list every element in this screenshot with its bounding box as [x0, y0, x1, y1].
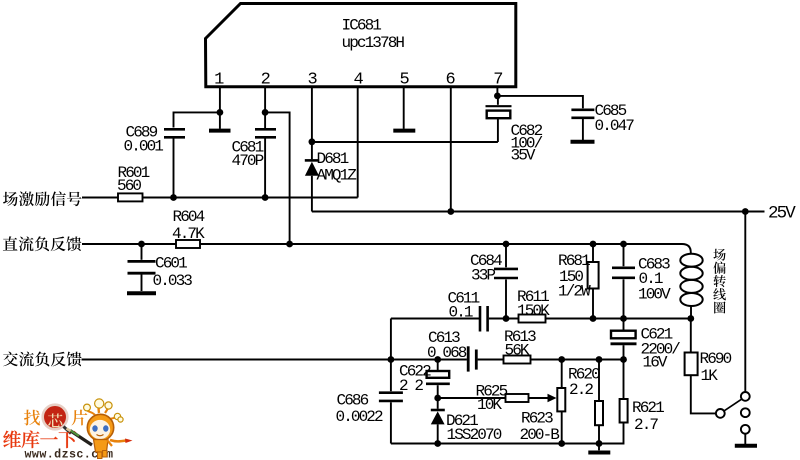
node R620 top — [596, 356, 603, 363]
ground pin1 — [209, 112, 231, 130]
node coil bottom — [687, 315, 694, 322]
wire mid-line left drop to AC line — [390, 319, 392, 360]
node R681 top — [590, 241, 597, 248]
wire AC feedback line right — [478, 359, 624, 361]
capacitor C682 (electrolytic) — [486, 96, 543, 165]
node C681-signal — [262, 194, 269, 201]
wire 25V rail — [312, 211, 765, 213]
node C621 top — [620, 315, 627, 322]
wire 25V to switch — [744, 212, 746, 393]
switch S1 — [716, 392, 750, 434]
node pin6 on 25V rail — [447, 208, 454, 215]
capacitor C683 — [612, 244, 671, 319]
wire C682 to pin3 node — [312, 141, 498, 143]
node C622-AC — [434, 356, 441, 363]
svg-text:R604: R604 — [173, 208, 205, 226]
node C622 bottom — [434, 395, 441, 402]
capacitor C685 — [571, 102, 634, 140]
svg-text:C601: C601 — [155, 255, 187, 273]
wire R625 line — [438, 397, 551, 399]
wire pin6 — [450, 87, 452, 212]
wire mid line right segment — [489, 318, 691, 320]
capacitor C601 — [128, 244, 193, 291]
ground bottom — [588, 444, 610, 453]
wire pin5 — [403, 87, 405, 129]
svg-text:1K: 1K — [701, 367, 719, 385]
label field deflection coil — [713, 249, 726, 314]
watermark text weikuyixia — [3, 430, 76, 448]
svg-text:7: 7 — [493, 71, 502, 90]
resistor R625 — [476, 383, 529, 415]
svg-text:1SS2070: 1SS2070 — [447, 426, 502, 444]
svg-text:35V: 35V — [511, 147, 536, 165]
node C683 top — [620, 241, 627, 248]
svg-text:0 068: 0 068 — [427, 344, 467, 362]
wire switch to ground — [744, 434, 746, 444]
wire DC feedback line — [82, 244, 691, 253]
svg-text:0.047: 0.047 — [595, 117, 635, 135]
node C684 top — [503, 241, 510, 248]
svg-text:4.7K: 4.7K — [172, 225, 205, 243]
wire R690 to switch arm — [691, 375, 716, 413]
wire pin1 — [219, 87, 221, 113]
wiper arrow to R623 — [548, 394, 557, 402]
svg-text:IC681: IC681 — [342, 17, 382, 35]
resistor R601 — [117, 164, 150, 201]
svg-text:0.001: 0.001 — [124, 138, 164, 156]
watermark text pian (chip) — [72, 410, 88, 426]
wire AC feedback line left — [82, 359, 467, 361]
svg-text:AMQ1Z: AMQ1Z — [317, 167, 358, 185]
wire pin2 to DC feedback line — [265, 112, 290, 244]
svg-text:2: 2 — [261, 71, 270, 90]
node switch on 25V rail — [742, 208, 749, 215]
potentiometer R623 — [520, 360, 566, 445]
svg-text:2.2: 2.2 — [569, 381, 593, 399]
node C689-signal — [170, 194, 177, 201]
svg-text:D681: D681 — [317, 150, 349, 168]
capacitor C622 (electrolytic) — [399, 360, 450, 399]
svg-text:upc1378H: upc1378H — [342, 34, 405, 52]
resistor R621 — [620, 360, 665, 435]
ground C601 — [127, 291, 156, 295]
svg-text:0.1: 0.1 — [449, 304, 473, 322]
node D621 bottom — [434, 440, 441, 447]
svg-text:25V: 25V — [768, 204, 796, 224]
node R681 bottom — [590, 315, 597, 322]
resistor R604 — [172, 208, 205, 248]
node R620 bottom — [596, 440, 603, 447]
op-amp IC681 upc1378H body — [206, 4, 516, 87]
svg-text:0.0022: 0.0022 — [336, 408, 384, 426]
wire pin2 — [264, 87, 266, 113]
IC pin numbers 1-7 — [214, 71, 502, 90]
watermark text zhao (find) — [24, 410, 40, 426]
wire signal line — [82, 197, 358, 199]
svg-text:560: 560 — [117, 177, 141, 195]
resistor R620 — [568, 360, 603, 444]
node C684 bottom — [503, 315, 510, 322]
node pin3 — [309, 138, 316, 145]
svg-text:0.033: 0.033 — [153, 272, 193, 290]
capacitor C611 (series) — [448, 290, 488, 332]
net label field excitation signal — [3, 191, 82, 206]
svg-text:1/2W: 1/2W — [558, 283, 591, 301]
svg-text:56K: 56K — [505, 342, 530, 360]
net label DC negative feedback — [3, 236, 81, 251]
capacitor C613 (series) — [427, 329, 476, 372]
ground pin5 — [393, 129, 415, 133]
wire bottom line — [391, 423, 624, 444]
svg-text:33P: 33P — [471, 267, 495, 285]
capacitor C689 — [124, 124, 186, 198]
label 25V — [768, 204, 796, 224]
svg-text:470P: 470P — [232, 152, 264, 170]
node R623 bottom — [558, 440, 565, 447]
watermark magnifier with xin (chip) char — [43, 405, 71, 434]
node C621-R621 — [620, 356, 627, 363]
wire pin4 to signal line — [357, 87, 359, 198]
node C601 — [138, 241, 145, 248]
wire pin7 — [496, 87, 498, 96]
node pin7 — [494, 93, 501, 100]
svg-text:R690: R690 — [700, 350, 732, 368]
resistor R611 — [517, 288, 550, 323]
capacitor C681 — [232, 112, 277, 197]
svg-text:200-B: 200-B — [520, 426, 560, 444]
node pin2-branch on DC line — [286, 241, 293, 248]
resistor R681 — [558, 244, 599, 319]
net label AC negative feedback — [3, 352, 82, 367]
wire mid line left segment — [391, 318, 479, 320]
node R623 top — [558, 356, 565, 363]
node C686-AC — [388, 356, 395, 363]
svg-text:C686: C686 — [337, 392, 369, 410]
svg-text:R621: R621 — [632, 399, 664, 417]
svg-text:150K: 150K — [517, 302, 550, 320]
node pin1 — [217, 109, 224, 116]
ground C685 — [571, 140, 595, 144]
svg-text:2 2: 2 2 — [399, 377, 423, 395]
wire pin1 to C689 — [174, 112, 220, 127]
ground switch — [735, 444, 757, 448]
svg-text:100V: 100V — [638, 286, 671, 304]
diode D621 — [431, 398, 502, 444]
watermark mascot — [67, 399, 133, 459]
inductor field deflection coil — [680, 253, 702, 319]
svg-text:2.7: 2.7 — [634, 416, 658, 434]
wire pin7 to C685 — [497, 96, 583, 108]
capacitor C621 (electrolytic) — [611, 319, 681, 372]
resistor R690 — [685, 319, 732, 386]
wire pin3 — [311, 87, 313, 142]
capacitor C686 — [336, 360, 403, 444]
node pin2 — [262, 109, 269, 116]
resistor R613 — [504, 328, 537, 364]
diode D681 — [305, 142, 358, 212]
capacitor C684 — [470, 244, 518, 319]
svg-text:R623: R623 — [521, 410, 553, 428]
svg-text:10K: 10K — [477, 396, 502, 414]
watermark url www.dzsc.com — [25, 448, 114, 460]
svg-text:16V: 16V — [643, 354, 668, 372]
